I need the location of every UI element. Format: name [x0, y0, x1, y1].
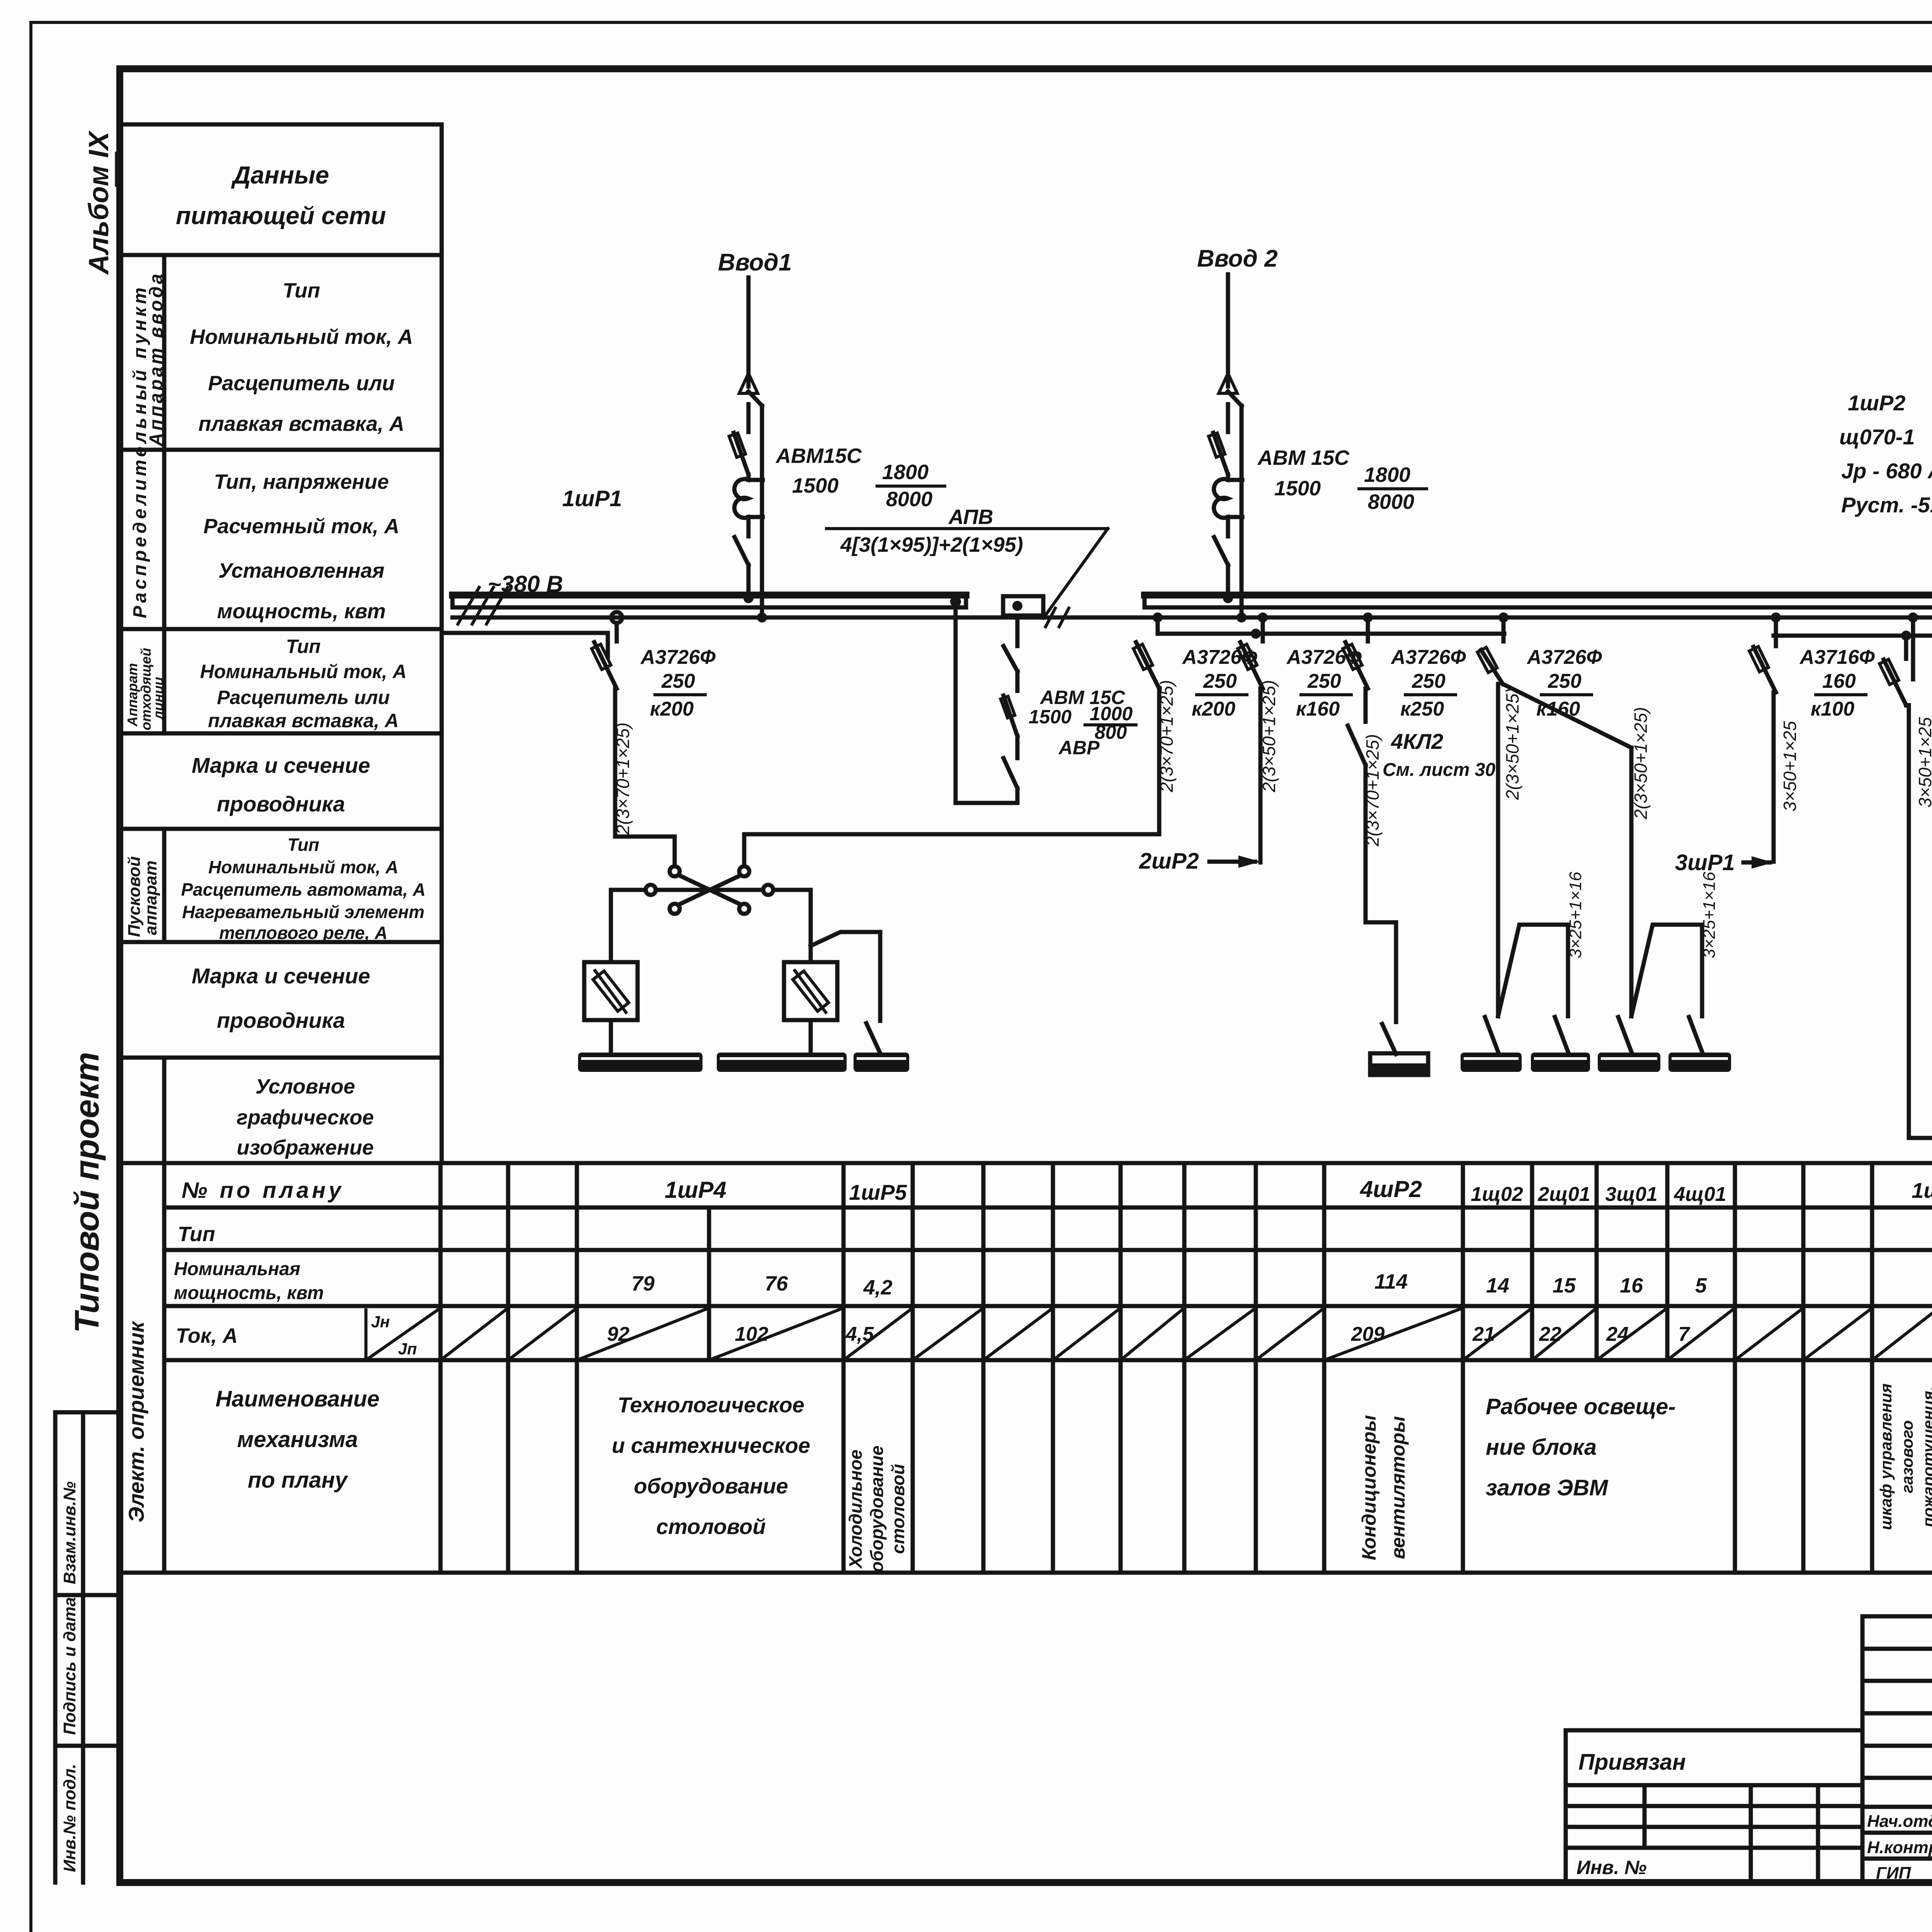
svg-text:24: 24	[1606, 1323, 1629, 1345]
load bar 1ШР5	[854, 1053, 909, 1072]
wire to bar 1ШР4б	[809, 1020, 813, 1053]
reversing switch (cross-over)	[611, 866, 811, 914]
svg-text:Тип: Тип	[178, 1223, 215, 1246]
label А3726Ф 250/к200 (QF3)	[1182, 646, 1257, 720]
svg-text:шкаф управления: шкаф управления	[1877, 1383, 1895, 1530]
svg-text:Данные: Данные	[231, 161, 329, 189]
svg-text:1800: 1800	[1364, 463, 1410, 486]
svg-text:питающей сети: питающей сети	[176, 202, 386, 230]
svg-text:Аппарат ввода: Аппарат ввода	[146, 271, 167, 447]
svg-text:3×25+1×16: 3×25+1×16	[1700, 872, 1719, 958]
svg-text:1шР5: 1шР5	[849, 1180, 907, 1204]
load bar 3щ01	[1598, 1053, 1660, 1072]
svg-text:Н.контр.: Н.контр.	[1867, 1838, 1932, 1857]
svg-text:мощность, квт: мощность, квт	[217, 600, 386, 623]
current row values	[607, 1323, 1932, 1345]
svg-text:79: 79	[631, 1272, 655, 1295]
bus 380V left section	[452, 595, 966, 607]
svg-text:76: 76	[765, 1272, 788, 1295]
fuse box left	[584, 962, 638, 1020]
Jн Jп split cell	[364, 1310, 367, 1360]
svg-text:22: 22	[1539, 1323, 1561, 1345]
svg-text:1800: 1800	[882, 461, 929, 484]
wire left starter drop	[609, 890, 613, 962]
svg-text:Номинальный ток, А: Номинальный ток, А	[208, 857, 398, 877]
svg-text:1шР2: 1шР2	[1848, 391, 1905, 415]
svg-text:250: 250	[1412, 670, 1446, 692]
load name: шкаф управления газового пожаротушения, щит питания АТС, сатураторные установку	[1877, 1383, 1932, 1530]
svg-text:линии: линии	[150, 677, 166, 720]
svg-text:2(3×50+1×25): 2(3×50+1×25)	[1631, 707, 1651, 820]
svg-text:Руст. -516 квт: Руст. -516 квт	[1841, 493, 1932, 517]
svg-text:250: 250	[661, 670, 695, 692]
revision grid	[1862, 1616, 1932, 1883]
feeder QF7 А3716Ф 160/к100 (to 3ШР1)	[1749, 612, 1781, 862]
svg-text:250: 250	[1203, 670, 1237, 692]
svg-text:8000: 8000	[886, 488, 932, 511]
branch to 2щ01	[1498, 925, 1568, 1016]
svg-text:проводника: проводника	[217, 1008, 345, 1032]
svg-text:1500: 1500	[1029, 706, 1071, 728]
svg-text:1500: 1500	[1274, 477, 1321, 500]
svg-text:механизма: механизма	[237, 1427, 358, 1452]
load bar 1щ02	[1461, 1053, 1522, 1072]
svg-text:Тип: Тип	[283, 279, 320, 302]
svg-text:Рабочее освеще-: Рабочее освеще-	[1486, 1394, 1676, 1419]
label А3726Ф 250/к200 (QF1)	[640, 646, 716, 720]
svg-text:Холодильное: Холодильное	[845, 1449, 866, 1569]
svg-text:столовой: столовой	[656, 1514, 766, 1539]
svg-text:залов ЭВМ: залов ЭВМ	[1486, 1475, 1609, 1500]
label АВМ15С 1500 1800/8000 (Ввод1)	[775, 444, 932, 511]
svg-text:Марка и сечение: Марка и сечение	[192, 964, 370, 988]
svg-text:Инв.№ подл.: Инв.№ подл.	[60, 1764, 79, 1872]
svg-text:21: 21	[1472, 1323, 1495, 1345]
svg-text:Ввод 2: Ввод 2	[1197, 245, 1278, 272]
svg-text:Нагревательный элемент: Нагревательный элемент	[182, 902, 424, 922]
contact to 3щ01	[1618, 1017, 1631, 1052]
svg-text:А3726Ф: А3726Ф	[640, 646, 716, 668]
svg-text:Jр - 680 А: Jр - 680 А	[1841, 459, 1932, 483]
svg-text:7: 7	[1679, 1323, 1690, 1345]
svg-text:Типовой проект: Типовой проект	[68, 1052, 106, 1333]
branch to 1ШР5	[811, 932, 880, 1021]
label АВМ15С 1500 1800/8000 (Ввод2)	[1257, 446, 1414, 514]
svg-text:к100: к100	[1811, 698, 1854, 720]
svg-text:АВМ 15С: АВМ 15С	[1257, 446, 1350, 469]
svg-text:плавкая вставка, А: плавкая вставка, А	[208, 710, 399, 731]
svg-text:А3726Ф: А3726Ф	[1390, 646, 1466, 668]
svg-text:1500: 1500	[792, 474, 838, 497]
svg-text:Инв. №: Инв. №	[1577, 1857, 1646, 1878]
svg-text:2(3×70+1×25): 2(3×70+1×25)	[613, 723, 633, 835]
LEFT HEADER TABLE	[120, 124, 442, 1163]
svg-text:пожаротушения,: пожаротушения,	[1919, 1386, 1932, 1527]
svg-text:2(3×50+1×25): 2(3×50+1×25)	[1502, 688, 1522, 800]
svg-text:8000: 8000	[1368, 490, 1414, 514]
svg-text:№ по плану: № по плану	[182, 1178, 344, 1203]
svg-text:4,5: 4,5	[845, 1323, 874, 1345]
load bar 2щ01	[1531, 1053, 1590, 1072]
load name: Кондиционеры вентиляторы	[1358, 1415, 1409, 1560]
svg-text:Технологическое: Технологическое	[617, 1393, 804, 1417]
svg-text:газового: газового	[1898, 1420, 1916, 1493]
feeder QF5 А3726Ф 250/к250 (4КЛ2 to 4ШР2)	[1343, 612, 1396, 1054]
svg-text:Кондиционеры: Кондиционеры	[1358, 1415, 1380, 1560]
svg-text:4[3(1×95)]+2(1×95): 4[3(1×95)]+2(1×95)	[840, 533, 1023, 556]
svg-text:теплового реле, А: теплового реле, А	[219, 923, 388, 943]
title block outline	[1862, 1616, 1932, 1883]
svg-text:Условное: Условное	[255, 1075, 355, 1098]
svg-text:проводника: проводника	[217, 792, 345, 816]
margin boxes strip	[55, 1412, 120, 1883]
svg-text:4КЛ2: 4КЛ2	[1391, 729, 1443, 753]
svg-text:столовой: столовой	[888, 1464, 908, 1554]
wire neutral feed from panel	[442, 633, 608, 657]
ATS switch АВР (АВМ15С 1500 1000/800)	[956, 596, 1069, 803]
power row values	[631, 1270, 1932, 1299]
fuse box right	[784, 962, 837, 1020]
svg-text:А3726Ф: А3726Ф	[1526, 646, 1602, 668]
wire to bar 1ШР4а	[609, 1020, 613, 1053]
feeder QF3 А3726Ф 250/к200 (second supply of starter)	[744, 612, 1163, 866]
svg-text:3щ01: 3щ01	[1605, 1183, 1657, 1206]
Ток row diagonals	[440, 1308, 1932, 1360]
input circuit breaker АВМ15С (Ввод2)	[1209, 274, 1247, 622]
svg-text:вентиляторы: вентиляторы	[1387, 1416, 1409, 1559]
contact to 1щ02	[1485, 1017, 1498, 1052]
svg-text:Расцепитель автомата, А: Расцепитель автомата, А	[181, 879, 426, 900]
svg-text:15: 15	[1553, 1274, 1576, 1297]
svg-text:Нач.отд: Нач.отд	[1867, 1812, 1932, 1831]
svg-text:АПВ: АПВ	[948, 505, 993, 529]
wire line B right	[1774, 634, 1932, 638]
svg-text:к160: к160	[1296, 698, 1340, 720]
consumer table grid rows	[120, 1161, 1932, 1165]
feeder QF1 А3726Ф 250/к200 (to 1ШР4 via reversing starter)	[592, 612, 675, 866]
label А3726Ф 250/к160 (QF6)	[1526, 646, 1602, 720]
svg-text:Элект. оприемник: Элект. оприемник	[124, 1320, 148, 1522]
svg-text:к200: к200	[650, 698, 694, 720]
load bar 4ШР2	[1370, 1053, 1428, 1075]
svg-text:АВМ15С: АВМ15С	[775, 444, 862, 468]
wire right starter drop	[809, 890, 813, 962]
load name: Технологическое и сантехническое оборудование столовой	[612, 1393, 810, 1539]
bus 380V right section	[1145, 585, 1932, 617]
label А3726Ф 250/к160 (QF4)	[1286, 646, 1362, 720]
BOTTOM TABLE	[120, 1163, 1932, 1573]
svg-text:5: 5	[1695, 1274, 1707, 1297]
svg-text:Альбом IX: Альбом IX	[83, 130, 114, 275]
svg-text:изображение: изображение	[237, 1136, 374, 1159]
svg-text:2(3×70+1×25): 2(3×70+1×25)	[1156, 680, 1177, 793]
load bar 4щ01	[1668, 1053, 1731, 1072]
load name: Холодильное оборудование столовой	[845, 1446, 908, 1572]
svg-text:250: 250	[1548, 670, 1582, 692]
svg-text:Тип: Тип	[286, 636, 321, 657]
svg-text:щ070-1: щ070-1	[1839, 425, 1915, 449]
svg-text:250: 250	[1307, 670, 1341, 692]
svg-text:3шР1: 3шР1	[1675, 850, 1735, 875]
svg-text:1шР1: 1шР1	[562, 486, 622, 511]
svg-text:Тип: Тип	[287, 835, 320, 855]
svg-text:к200: к200	[1192, 698, 1235, 720]
svg-text:См. лист 30: См. лист 30	[1383, 760, 1495, 780]
svg-text:АВР: АВР	[1058, 737, 1100, 759]
svg-text:оборудование: оборудование	[634, 1474, 788, 1498]
svg-text:по плану: по плану	[248, 1468, 349, 1493]
svg-text:А3716Ф: А3716Ф	[1799, 646, 1875, 668]
svg-text:Установленная: Установленная	[218, 559, 384, 582]
label А3716Ф 160/к100 (QF7)	[1799, 646, 1875, 720]
feeder QF4 А3726Ф 250/к160 (to 2ШР2)	[1238, 612, 1268, 862]
svg-text:Jп: Jп	[398, 1340, 417, 1358]
svg-text:Ввод1: Ввод1	[718, 249, 792, 276]
svg-text:3×25+1×16: 3×25+1×16	[1566, 872, 1585, 958]
TITLE BLOCK	[1566, 1616, 1932, 1932]
label А3726Ф 250/к250 (QF5)	[1390, 646, 1466, 720]
svg-text:к160: к160	[1536, 698, 1580, 720]
svg-text:плавкая вставка, А: плавкая вставка, А	[198, 412, 404, 435]
svg-text:4,2: 4,2	[863, 1276, 892, 1299]
svg-text:ГИП: ГИП	[1876, 1864, 1912, 1883]
svg-text:Наименование: Наименование	[216, 1386, 379, 1412]
svg-text:4щ01: 4щ01	[1673, 1183, 1726, 1206]
consumer table grid columns	[162, 1163, 167, 1573]
contact to 2щ01	[1555, 1017, 1568, 1052]
load bar 1ШР4б	[717, 1053, 847, 1072]
svg-text:2(3×50+1×25): 2(3×50+1×25)	[1259, 680, 1279, 793]
svg-text:Расцепитель или: Расцепитель или	[208, 372, 395, 395]
svg-text:92: 92	[607, 1323, 629, 1345]
svg-text:Взам.инв.№: Взам.инв.№	[60, 1481, 79, 1584]
label АВМ15С 1500 1000/800 АВР	[1029, 687, 1133, 759]
header table grid	[120, 122, 442, 127]
svg-text:Тип, напряжение: Тип, напряжение	[214, 470, 389, 493]
svg-text:Номинальный ток, А: Номинальный ток, А	[200, 661, 407, 682]
svg-text:Марка и сечение: Марка и сечение	[192, 753, 370, 777]
node bus junction dot	[950, 596, 961, 607]
svg-text:к250: к250	[1400, 698, 1444, 720]
привязан box	[1566, 1730, 1862, 1883]
svg-text:оборудование: оборудование	[867, 1446, 887, 1572]
svg-text:Привязан: Привязан	[1578, 1750, 1686, 1775]
svg-text:160: 160	[1822, 670, 1856, 692]
svg-text:2щ01: 2щ01	[1537, 1183, 1590, 1206]
svg-text:Jн: Jн	[371, 1313, 390, 1331]
svg-text:1щ02: 1щ02	[1471, 1183, 1523, 1206]
signature rows	[1862, 1807, 1932, 1883]
input circuit breaker АВМ15С (Ввод1)	[729, 277, 767, 622]
svg-text:Подпись и дата: Подпись и дата	[60, 1597, 79, 1735]
svg-text:16: 16	[1620, 1274, 1643, 1297]
svg-text:мощность, квт: мощность, квт	[174, 1283, 324, 1303]
contact to 1ШР5	[866, 1023, 880, 1053]
svg-text:ние блока: ние блока	[1486, 1435, 1597, 1460]
wire line B left	[1158, 617, 1504, 634]
contact to 4щ01	[1689, 1017, 1702, 1052]
svg-text:102: 102	[735, 1323, 769, 1345]
svg-text:2(3×70+1×25): 2(3×70+1×25)	[1362, 734, 1383, 847]
svg-text:графическое: графическое	[236, 1106, 374, 1129]
svg-text:3×50+1×25: 3×50+1×25	[1780, 721, 1800, 811]
branch to 4щ01	[1631, 925, 1702, 1016]
svg-text:и сантехническое: и сантехническое	[612, 1433, 810, 1458]
svg-text:1шР3: 1шР3	[1912, 1178, 1932, 1202]
wire line A (feeder line)	[452, 616, 1932, 620]
svg-text:209: 209	[1351, 1323, 1385, 1345]
svg-text:аппарат: аппарат	[141, 861, 160, 935]
feeder QF6 А3726Ф 250/к160 (to 1щ02-4щ01)	[1477, 612, 1631, 1016]
load bar 1ШР4а	[578, 1053, 702, 1072]
svg-text:Расчетный ток, А: Расчетный ток, А	[204, 515, 400, 538]
svg-text:Ток, А: Ток, А	[176, 1324, 238, 1347]
svg-text:2шР2: 2шР2	[1139, 849, 1199, 874]
label 1ШР2 panel data	[1839, 391, 1932, 517]
svg-text:Номинальный ток, А: Номинальный ток, А	[190, 325, 413, 349]
svg-text:3×50+1×25: 3×50+1×25	[1915, 717, 1932, 808]
svg-text:Пусковой: Пусковой	[125, 856, 144, 937]
svg-text:1шР4: 1шР4	[665, 1177, 726, 1203]
load name: Рабочее освещение блока залов ЭВМ	[1486, 1394, 1676, 1500]
svg-text:114: 114	[1374, 1270, 1408, 1293]
svg-text:Расцепитель или: Расцепитель или	[217, 687, 389, 708]
bus phase hatch marks	[458, 587, 508, 624]
svg-text:14: 14	[1486, 1274, 1509, 1297]
svg-text:Номинальная: Номинальная	[174, 1259, 300, 1279]
svg-text:4шР2: 4шР2	[1360, 1176, 1422, 1202]
feeder QF8 А3716Ф 160/к100 (to 1ШР3)	[1879, 612, 1932, 1138]
